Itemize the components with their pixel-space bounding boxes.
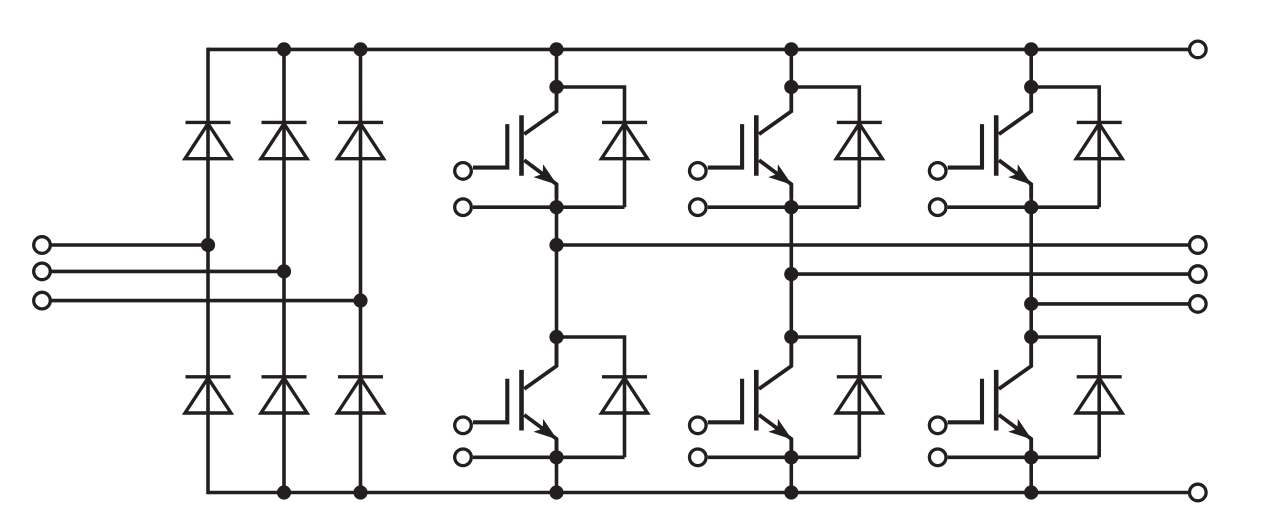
node emitter Q6 [1024,450,1038,464]
terminal auxiliary emitter E6 [929,449,946,466]
terminal AC input 2 [34,263,51,280]
terminal DC- output [1190,484,1207,501]
terminal gate G6 [929,417,946,434]
wire AC input 2 [48,270,284,274]
wire freewheel branch D5 [1031,87,1099,207]
wire emitter Q6 to bus [1029,439,1033,493]
junction bottom bus / rectifier leg 3 [353,485,367,499]
junction bottom bus / half-bridge U [549,485,563,499]
freewheel diode FD5 [1076,122,1122,158]
wire freewheel branch D6 [1031,337,1099,457]
node collector Q1 [549,80,563,94]
wire collector Q1 from bus [555,49,559,88]
node phase V [784,267,798,281]
terminal auxiliary emitter E5 [929,199,946,216]
freewheel diode FD4 [836,377,882,413]
node emitter Q5 [1024,200,1038,214]
junction top bus / half-bridge U [549,42,563,56]
node emitter Q3 [784,200,798,214]
terminal DC+ output [1190,41,1207,58]
rectifier diode D1 (upper) [185,122,231,158]
wire emitter Q2 to bus [555,439,559,493]
freewheel diode FD6 [1076,377,1122,413]
wire emitter Q5 to phase node [1029,184,1033,364]
wire top DC+ bus [208,48,1189,52]
IGBT Q5 (upper) [948,87,1032,198]
wire AC input 1 [48,243,208,247]
wire auxiliary emitter E4 [708,455,860,459]
wire auxiliary emitter E5 [948,205,1099,209]
junction top bus / rectifier leg 3 [353,42,367,56]
wire rectifier leg 3 [359,48,363,495]
wire collector Q3 from bus [789,49,793,88]
freewheel diode FD1 [602,122,648,158]
rectifier diode D3 (upper) [338,122,384,158]
terminal gate G5 [929,163,946,180]
node AC phase 1 on rectifier leg [201,238,215,252]
terminal auxiliary emitter E4 [690,449,707,466]
node emitter Q2 [549,450,563,464]
terminal phase output W [1190,296,1207,313]
node emitter Q1 [549,200,563,214]
junction bottom bus / half-bridge W [1024,485,1038,499]
wire freewheel branch D2 [557,337,625,457]
junction bottom bus / half-bridge V [784,485,798,499]
node collector Q6 [1024,330,1038,344]
wire bottom DC- bus [208,491,1189,495]
node AC phase 3 on rectifier leg [353,294,367,308]
wire emitter Q3 to phase node [789,184,793,364]
terminal phase output U [1190,237,1207,254]
junction top bus / half-bridge V [784,42,798,56]
IGBT Q6 (lower) [948,337,1032,453]
freewheel diode FD2 [602,377,648,413]
wire phase output V [791,272,1188,276]
wire rectifier leg 2 [282,48,286,495]
junction bottom bus / rectifier leg 2 [277,485,291,499]
terminal phase output V [1190,266,1207,283]
node collector Q2 [549,330,563,344]
wire auxiliary emitter E3 [708,205,860,209]
terminal auxiliary emitter E1 [455,199,472,216]
node emitter Q4 [784,450,798,464]
terminal gate G4 [690,417,707,434]
IGBT Q2 (lower) [473,337,557,453]
wire freewheel branch D4 [791,337,859,457]
terminal AC input 3 [34,292,51,309]
terminal AC input 1 [34,237,51,254]
wire rectifier leg 1 [206,48,210,495]
IGBT Q3 (upper) [708,87,792,198]
IGBT Q4 (lower) [708,337,792,453]
rectifier diode D2 (upper) [261,122,307,158]
wire AC input 3 [48,299,361,303]
wire freewheel branch D1 [557,87,625,207]
node phase U [549,238,563,252]
node AC phase 2 on rectifier leg [277,264,291,278]
wire phase output W [1031,302,1188,306]
node phase W [1024,297,1038,311]
rectifier diode D6 (lower) [338,377,384,413]
wire auxiliary emitter E1 [473,205,625,209]
node collector Q3 [784,80,798,94]
freewheel diode FD3 [836,122,882,158]
terminal gate G2 [455,417,472,434]
wire auxiliary emitter E6 [948,455,1099,459]
wire emitter Q4 to bus [789,439,793,493]
wire emitter Q1 to phase node [555,184,559,364]
junction top bus / half-bridge W [1024,42,1038,56]
terminal gate G3 [690,163,707,180]
IGBT Q1 (upper) [473,87,557,198]
terminal gate G1 [455,163,472,180]
rectifier diode D5 (lower) [261,377,307,413]
node collector Q5 [1024,80,1038,94]
wire auxiliary emitter E2 [473,455,625,459]
terminal auxiliary emitter E2 [455,449,472,466]
terminal auxiliary emitter E3 [690,199,707,216]
rectifier diode D4 (lower) [185,377,231,413]
junction top bus / rectifier leg 2 [277,42,291,56]
wire freewheel branch D3 [791,87,859,207]
wire phase output U [557,243,1189,247]
wire collector Q5 from bus [1029,49,1033,88]
node collector Q4 [784,330,798,344]
